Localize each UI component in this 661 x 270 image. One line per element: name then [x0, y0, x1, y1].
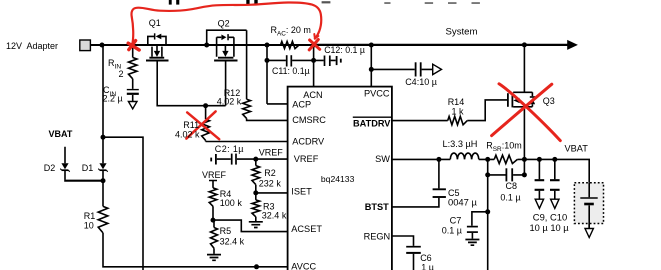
svg-text:L:3.3 µH: L:3.3 µH — [443, 139, 478, 149]
svg-text:VREF: VREF — [294, 154, 319, 164]
svg-text:32.4 k: 32.4 k — [220, 236, 245, 246]
svg-text:R11: R11 — [183, 120, 199, 130]
svg-text:32.4 k: 32.4 k — [262, 211, 287, 221]
svg-text:C4:10 µ: C4:10 µ — [405, 77, 437, 87]
svg-text:REGN: REGN — [364, 231, 391, 241]
svg-text:C11: 0.1µ: C11: 0.1µ — [272, 66, 310, 76]
svg-text:Q2: Q2 — [218, 19, 230, 29]
svg-text:1 k: 1 k — [452, 106, 465, 116]
svg-text:PVCC: PVCC — [364, 89, 390, 99]
svg-text:BTST: BTST — [365, 202, 389, 212]
svg-text:bq24133: bq24133 — [321, 174, 355, 184]
svg-text:C7: C7 — [450, 215, 462, 225]
svg-text:0047 µ: 0047 µ — [448, 196, 477, 207]
svg-text:10: 10 — [84, 220, 94, 230]
svg-text:10 µ 10 µ: 10 µ 10 µ — [530, 223, 570, 233]
svg-text:AVCC: AVCC — [291, 262, 316, 270]
svg-text:VBAT: VBAT — [49, 129, 73, 139]
svg-text:4.02 k: 4.02 k — [175, 130, 200, 140]
svg-text:Q3: Q3 — [543, 96, 555, 106]
svg-text:CMSRC: CMSRC — [292, 115, 326, 125]
svg-text:BATDRV: BATDRV — [353, 118, 391, 128]
svg-text:232 k: 232 k — [259, 178, 282, 188]
svg-text:C2: 1µ: C2: 1µ — [215, 144, 244, 154]
svg-text:ISET: ISET — [291, 186, 312, 196]
svg-text:0.1 µ: 0.1 µ — [442, 225, 462, 235]
svg-text:4.02 k: 4.02 k — [217, 96, 242, 106]
svg-text:VREF: VREF — [202, 170, 227, 180]
svg-text:System: System — [446, 27, 478, 38]
svg-text:C9, C10: C9, C10 — [533, 211, 567, 222]
svg-text:ACP: ACP — [292, 100, 311, 110]
svg-text:C12: 0.1 µ: C12: 0.1 µ — [324, 45, 365, 55]
svg-text:12V Adapter: 12V Adapter — [6, 41, 58, 51]
svg-text:ACDRV: ACDRV — [292, 136, 325, 146]
svg-text:R5: R5 — [220, 226, 232, 236]
svg-text:ACSET: ACSET — [291, 224, 322, 234]
svg-text:1 µ: 1 µ — [421, 262, 434, 270]
svg-text:VBAT: VBAT — [565, 144, 589, 154]
svg-text:VREF: VREF — [259, 147, 284, 157]
svg-text:C8: C8 — [506, 181, 518, 191]
svg-text:D1: D1 — [82, 163, 94, 173]
svg-text:0.1 µ: 0.1 µ — [500, 192, 520, 202]
svg-text:D2: D2 — [44, 163, 56, 173]
svg-text:Q1: Q1 — [149, 18, 161, 28]
svg-text:2.2 µ: 2.2 µ — [103, 94, 123, 104]
svg-text:SW: SW — [375, 154, 390, 164]
svg-text:R2: R2 — [264, 168, 276, 178]
svg-text:100 k: 100 k — [220, 198, 243, 208]
svg-text:2: 2 — [119, 69, 124, 79]
